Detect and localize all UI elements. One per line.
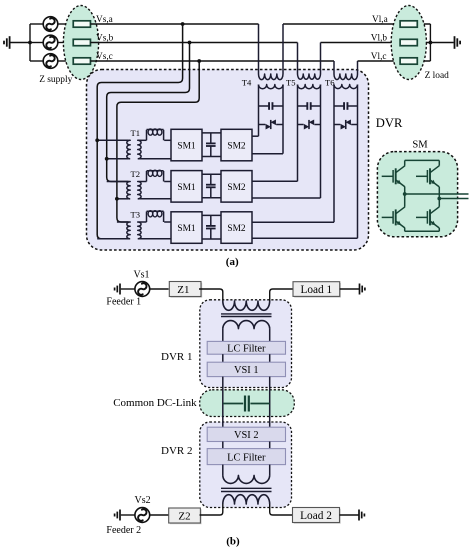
wire phase b to Z supply (58, 42, 74, 44)
label Vl,a (372, 15, 388, 25)
svg-text:DVR 1: DVR 1 (161, 351, 192, 363)
wire DC bus bottom row 3 (202, 238, 221, 240)
impedance Z supply phase a (73, 21, 90, 27)
transformer T4 primary winding (259, 74, 283, 80)
wire T4 cell right rail (282, 85, 284, 154)
svg-text:Load 2: Load 2 (300, 510, 332, 522)
svg-text:Z2: Z2 (178, 511, 190, 523)
transformer T2 secondary winding (138, 182, 141, 199)
label T2 (130, 169, 140, 179)
label Vl,c (371, 52, 387, 62)
label Vs1 (133, 269, 149, 280)
thyristor pair cell T4 (259, 120, 284, 130)
label DVR 1 (161, 351, 192, 363)
label Common DC-Link (113, 397, 197, 409)
wire Z2 to transformer (200, 504, 223, 515)
ground load 2 (359, 510, 364, 521)
svg-text:VSI 2: VSI 2 (234, 430, 259, 441)
transformer T3 secondary winding (138, 222, 141, 239)
submodule SM2 row 3 (221, 212, 252, 244)
submodule SM2 row 2 (221, 171, 252, 203)
node tap a (181, 22, 185, 26)
wire gnd to Vs1 (121, 288, 135, 290)
svg-text:Feeder 2: Feeder 2 (106, 525, 141, 536)
wire LC1 to VSI1 right (269, 354, 271, 362)
source Vs2 (135, 508, 150, 523)
transformer T1 secondary winding (138, 140, 141, 159)
block VSI 2 (207, 427, 285, 441)
label T1 (130, 128, 140, 138)
ground load 1 (360, 284, 365, 295)
load Load 1 (293, 282, 341, 298)
wire DC bus bottom row 2 (202, 197, 221, 199)
wire SM2 row 1 output top (252, 135, 259, 137)
node junction row 2 (105, 157, 109, 161)
wire T1 primary bottom lead (107, 158, 129, 160)
transformer DVR1 core (221, 314, 272, 317)
svg-text:Load 1: Load 1 (300, 284, 332, 296)
wire branch a (30, 23, 43, 25)
ground load (455, 36, 461, 49)
svg-text:(a): (a) (226, 256, 239, 268)
thyristor pair cell T6 (334, 120, 358, 130)
block VSI 1 (207, 362, 285, 376)
wire LC1 to VSI1 left (222, 354, 224, 362)
wire T5 primary right stub (320, 43, 322, 75)
svg-text:SM1: SM1 (177, 183, 196, 193)
wire DVR1 secondary right lead (269, 329, 271, 342)
wire Load 1 to ground (340, 288, 359, 290)
ground feeder 2 (115, 510, 120, 521)
impedance Z load phase c (400, 58, 417, 64)
label T3 (130, 210, 140, 220)
impedance Z supply phase c (73, 58, 90, 64)
inductor filter row 3 (147, 211, 164, 222)
capacitor common DC-link (223, 396, 270, 412)
wire transformer to Load 2 (270, 504, 293, 515)
svg-text:Common DC-Link: Common DC-Link (113, 397, 197, 409)
wire DC bus bottom row 1 (202, 156, 221, 158)
label T6 (325, 77, 335, 87)
node tap c (197, 59, 201, 63)
wire supply bus vertical (29, 24, 31, 61)
wire DVR1 secondary left lead (222, 329, 224, 342)
Common DC-Link box (200, 390, 295, 417)
capacitor cell T6 (334, 102, 358, 110)
wire T2 primary top lead (107, 181, 129, 183)
wire DC bus left (222, 377, 224, 428)
svg-text:Vl,c: Vl,c (371, 52, 387, 62)
wire node to load ground (430, 42, 453, 44)
submodule SM1 row 3 (171, 212, 202, 244)
wire DC bus right (269, 377, 271, 428)
wire DC bus top row 2 (202, 173, 221, 175)
label Vs,a (96, 15, 113, 25)
label Z load (425, 71, 450, 81)
label T4 (242, 77, 252, 87)
wire T3 secondary bottom lead (140, 238, 172, 240)
capacitor DC-link row 1 (206, 133, 216, 157)
wire branch c (30, 60, 43, 62)
impedance Z load phase a (400, 21, 417, 27)
source Vs,a (43, 17, 58, 32)
svg-text:Vs2: Vs2 (135, 495, 151, 506)
source Vs,c (43, 54, 58, 69)
label Feeder 1 (106, 296, 141, 307)
wire row a right Vl,a (283, 23, 430, 25)
caption (b) (226, 536, 240, 548)
node load neutral (429, 41, 433, 45)
transformer DVR1 secondary winding (223, 321, 270, 329)
label Z supply (39, 75, 72, 85)
capacitor cell T4 (259, 102, 284, 110)
wire SM2 row 3 output bottom (252, 237, 358, 239)
source Vs1 (135, 282, 150, 297)
wire T4 primary right stub (282, 24, 284, 74)
block LC Filter 1 (207, 341, 285, 354)
label DVR (376, 116, 403, 130)
wire Load 2 to ground (340, 514, 359, 516)
impedance Z supply phase b (73, 39, 90, 45)
wire T6 cell right rail (357, 85, 359, 239)
wire row a left (90, 23, 258, 25)
capacitor cell T5 (298, 102, 321, 110)
wire row c right Vl,c (358, 60, 431, 62)
label SM (412, 140, 428, 151)
svg-text:LC Filter: LC Filter (227, 453, 266, 464)
wire row b left (90, 42, 297, 44)
transformer DVR1 primary winding (223, 301, 270, 310)
wire tap c down to T3 top (117, 61, 199, 222)
wire T1 secondary top lead (140, 139, 172, 141)
svg-text:SM1: SM1 (177, 224, 196, 234)
wire SM top rail (405, 159, 440, 161)
wire T4 cell left rail (258, 85, 260, 137)
wire transformer to Load 1 (270, 289, 293, 301)
svg-text:DVR 2: DVR 2 (161, 445, 192, 457)
impedance Z2 (169, 508, 202, 524)
wire phase c to Z supply (58, 60, 74, 62)
transformer T5 secondary winding (298, 85, 321, 89)
wire T6 cell left rail (333, 85, 335, 223)
svg-text:SM2: SM2 (227, 183, 246, 193)
svg-text:DVR: DVR (376, 116, 403, 130)
svg-text:SM1: SM1 (177, 141, 196, 151)
node junction row 1 (95, 138, 99, 142)
capacitor DC-link row 3 (206, 215, 216, 239)
ground supply (4, 36, 10, 49)
wire T1 primary top lead (97, 139, 128, 141)
node SM right midpoint (437, 197, 441, 201)
Z supply ellipse (63, 6, 98, 80)
wire Vs1 to Z1 (150, 288, 169, 290)
submodule SM1 row 1 (171, 129, 202, 161)
inductor filter row 1 (147, 129, 164, 140)
svg-text:VSI 1: VSI 1 (234, 365, 259, 376)
wire SM bottom rail (405, 230, 440, 232)
wire SM mid rail output 1 (405, 193, 469, 195)
inductor filter row 2 (147, 170, 164, 181)
svg-text:(b): (b) (226, 536, 240, 548)
wire ground to node (11, 42, 31, 44)
label T5 (286, 77, 296, 87)
svg-text:Vs1: Vs1 (133, 269, 149, 280)
wire row b right Vl,b (321, 42, 431, 44)
Z load ellipse (391, 6, 426, 80)
wire branch b (30, 42, 43, 44)
wire SM2 row 2 output top (252, 180, 298, 182)
label DVR 2 (161, 445, 192, 457)
svg-text:T1: T1 (130, 128, 140, 138)
impedance Z1 (169, 282, 202, 298)
transformer T1 primary winding (127, 140, 130, 159)
wire VSI2 to LC2 right (269, 442, 271, 449)
source Vs,b (43, 35, 58, 50)
transformer DVR2 secondary winding (223, 475, 270, 483)
wire T5 primary left stub (297, 43, 299, 75)
wire T1 secondary bottom lead (140, 158, 172, 160)
wire DC bus top row 3 (202, 214, 221, 216)
wire LC2 to transformer right (269, 465, 271, 476)
wire T3 primary top lead (117, 221, 128, 223)
igbt Q3 bottom-left (382, 194, 405, 231)
submodule SM2 row 1 (221, 129, 252, 161)
transformer T3 primary winding (127, 222, 130, 239)
wire T2 secondary bottom lead (140, 198, 172, 200)
thyristor pair cell T5 (298, 120, 321, 130)
block LC Filter 2 (207, 449, 285, 465)
wire SM2 row 3 output top (252, 221, 334, 223)
wire Z1 to transformer (199, 289, 223, 301)
svg-text:Vl,b: Vl,b (371, 33, 388, 43)
wire SM2 row 2 output bottom (252, 197, 321, 199)
wire load merge a (429, 24, 431, 43)
node supply neutral (28, 41, 32, 45)
wire DC bus top row 1 (202, 132, 221, 134)
svg-text:Z load: Z load (425, 71, 450, 81)
wire VSI2 to LC2 left (222, 442, 224, 449)
wire T6 primary right stub (357, 61, 359, 74)
svg-text:SM2: SM2 (227, 141, 246, 151)
caption (a) (226, 256, 239, 268)
label Vs,b (96, 33, 114, 43)
transformer DVR2 core (221, 488, 272, 491)
label Vl,b (371, 33, 388, 43)
node SM left midpoint (403, 192, 407, 196)
transformer T4 secondary winding (259, 85, 284, 89)
DVR enclosure box (87, 70, 369, 251)
wire T6 primary left stub (333, 61, 335, 74)
capacitor DC-link row 2 (206, 174, 216, 198)
transformer T2 primary winding (127, 182, 130, 199)
svg-text:Z supply: Z supply (39, 75, 72, 85)
label Feeder 2 (106, 525, 141, 536)
DVR 1 box (200, 300, 292, 388)
submodule SM1 row 2 (171, 171, 202, 203)
wire T3 secondary top lead (140, 221, 172, 223)
impedance Z load phase b (400, 39, 417, 45)
svg-text:Vl,a: Vl,a (372, 15, 388, 25)
wire T5 cell left rail (297, 85, 299, 182)
igbt Q4 bottom-right (416, 199, 439, 232)
igbt Q1 top-left (382, 160, 405, 194)
transformer T6 secondary winding (334, 85, 357, 89)
ground feeder 1 (115, 284, 120, 295)
transformer T6 primary winding (334, 74, 358, 80)
svg-text:T3: T3 (130, 210, 140, 220)
label Vs2 (135, 495, 151, 506)
wire SM output 2 (439, 198, 468, 200)
svg-text:SM2: SM2 (227, 224, 246, 234)
DVR 2 box (200, 422, 292, 508)
wire gnd to Vs2 (121, 514, 135, 516)
wire SM2 row 1 output bottom (252, 153, 283, 155)
svg-text:T2: T2 (130, 169, 140, 179)
transformer T5 primary winding (298, 74, 321, 79)
svg-text:Feeder 1: Feeder 1 (106, 296, 141, 307)
svg-text:LC Filter: LC Filter (227, 343, 266, 354)
igbt Q2 top-right (416, 160, 439, 198)
wire phase a to Z supply (58, 23, 74, 25)
wire T3 primary bottom lead (97, 238, 128, 240)
wire T5 cell right rail (320, 85, 322, 199)
wire tap a down to T3 bottom (97, 24, 182, 239)
transformer DVR2 primary winding (223, 495, 270, 504)
svg-text:T4: T4 (242, 77, 252, 87)
load Load 2 (293, 508, 341, 524)
svg-text:Z1: Z1 (177, 284, 189, 296)
node tap b (188, 41, 192, 45)
wire Vs2 to Z2 (150, 514, 169, 516)
wire T4 primary left stub (258, 24, 260, 74)
wire T2 primary bottom lead (117, 198, 128, 200)
wire LC2 to transformer left (222, 465, 224, 476)
svg-text:SM: SM (412, 140, 428, 151)
wire row c left (90, 60, 334, 62)
wire T2 secondary top lead (140, 181, 172, 183)
wire load merge c (429, 43, 431, 62)
SM module box (377, 152, 457, 237)
svg-text:T5: T5 (286, 77, 296, 87)
node junction row 3 (115, 197, 119, 201)
label Vs,c (96, 52, 113, 62)
wire tap b down to T2 top (107, 43, 190, 182)
